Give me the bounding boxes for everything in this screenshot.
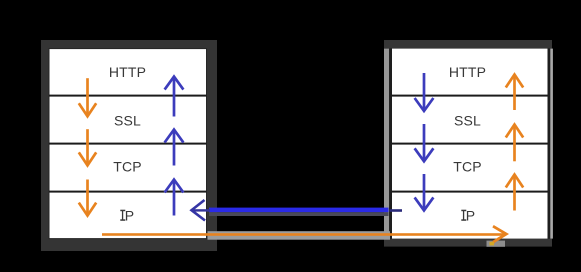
yellow tip dot on orange arrowhead tail (490, 242, 495, 246)
svg-text:TCP: TCP (113, 158, 142, 174)
blue down arrow right TCP to IP (415, 174, 434, 210)
left separator SSL/TCP (49, 143, 207, 145)
right separator TCP/IP (392, 191, 548, 193)
left separator HTTP/SSL (49, 95, 207, 97)
orange horizontal right arrowhead (492, 226, 506, 244)
blue up arrow left TCP to SSL (165, 130, 184, 166)
orange up arrow right SSL to HTTP (506, 75, 523, 111)
right stack box left dark border line (389, 49, 392, 239)
svg-text:TCP: TCP (453, 158, 482, 174)
right stack box top border (384, 40, 552, 49)
blue down arrow right SSL to TCP (415, 124, 434, 161)
svg-text:HTTP: HTTP (449, 64, 486, 80)
blue up arrow left IP to TCP (165, 180, 184, 216)
right stack box right gray halo (550, 49, 553, 239)
svg-text:SSL: SSL (114, 112, 141, 128)
right stack box interior (392, 49, 548, 239)
right separator HTTP/SSL (392, 95, 548, 97)
right stack box left gray halo (384, 49, 389, 239)
serif bars on I of right IP label (461, 210, 466, 212)
orange down arrow left HTTP to SSL (79, 78, 96, 116)
blue horizontal connection gray-navy under band (209, 212, 389, 216)
blue horizontal connection bright thick line (209, 208, 389, 213)
gray matte band around orange line in gap (208, 231, 391, 240)
orange up arrow right IP to TCP (506, 175, 523, 211)
right stack box bottom border (384, 239, 552, 247)
blue horizontal left arrowhead (192, 200, 206, 221)
left stack box interior (49, 49, 207, 239)
orange down arrow left SSL to TCP (79, 129, 96, 165)
left stack box border (41, 40, 217, 251)
gray matte patch under orange arrowhead (487, 241, 506, 247)
blue down arrow right HTTP to SSL (415, 73, 434, 111)
orange up arrow right TCP to SSL (506, 125, 523, 162)
orange horizontal line (102, 233, 504, 236)
svg-text:HTTP: HTTP (109, 64, 146, 80)
blue horizontal thin segment inside left box (193, 209, 210, 211)
serif bars on I of left IP label (120, 210, 125, 212)
svg-text:SSL: SSL (454, 112, 481, 128)
right stack box right dark border line (548, 49, 551, 239)
orange down arrow left TCP to IP (79, 180, 96, 216)
blue horizontal thin segment inside right box (390, 209, 403, 212)
left separator TCP/IP (49, 191, 207, 193)
blue up arrow left SSL to HTTP (165, 77, 184, 117)
right separator SSL/TCP (392, 143, 548, 145)
